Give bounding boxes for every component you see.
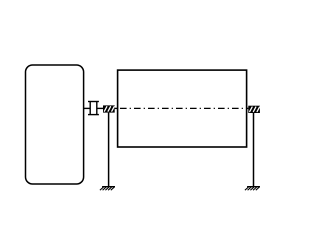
wire shaft motor to coupling — [84, 107, 91, 109]
motor M1 — [26, 65, 84, 184]
wire shaft drum to bearing right — [247, 107, 249, 109]
bearing B1 left — [103, 105, 115, 112]
centerline axis dash-dot — [120, 107, 244, 109]
bearing B2 right — [248, 106, 260, 113]
wire shaft bearing to drum — [115, 107, 118, 109]
support leg right — [253, 113, 255, 187]
ground left — [100, 187, 115, 191]
coupling — [88, 102, 99, 115]
support leg left — [108, 113, 110, 187]
drum D1 — [118, 70, 247, 147]
ground right — [245, 187, 260, 191]
wire shaft coupling to bearing — [97, 107, 103, 109]
